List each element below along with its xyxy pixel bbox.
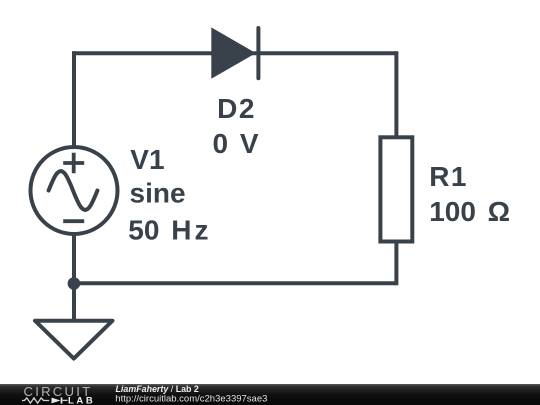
- D2 anode triangle: [211, 27, 256, 78]
- svg-text:LAB: LAB: [68, 395, 95, 405]
- wire left vertical: [72, 51, 76, 148]
- V1 plus sign: [63, 153, 84, 173]
- V1 sine symbol: [49, 171, 98, 210]
- wire top horizontal: [72, 51, 396, 55]
- voltage source V1: [31, 147, 118, 234]
- svg-text:sine: sine: [130, 178, 186, 209]
- ground: [35, 321, 113, 359]
- wire bottom horizontal: [74, 281, 396, 285]
- wire right vertical: [394, 51, 398, 139]
- junction node: [68, 277, 81, 290]
- svg-text:D2: D2: [217, 93, 256, 124]
- logo diode symbol: [52, 398, 61, 404]
- svg-text:http://circuitlab.com/c2h3e339: http://circuitlab.com/c2h3e3397sae3: [115, 394, 267, 405]
- svg-text:LiamFaherty / Lab 2: LiamFaherty / Lab 2: [116, 384, 199, 394]
- diode D2: [211, 27, 258, 78]
- svg-text:R1: R1: [429, 161, 468, 192]
- D2 cathode bar: [256, 28, 260, 78]
- resistor R1: [380, 137, 412, 241]
- V1 minus sign: [63, 219, 84, 223]
- wire resistor bottom: [394, 240, 398, 285]
- svg-text:50 Hz: 50 Hz: [128, 215, 211, 246]
- svg-text:V1: V1: [130, 144, 164, 175]
- svg-text:0 V: 0 V: [213, 128, 259, 159]
- footer bar: [0, 384, 540, 405]
- logo zigzag resistor: [22, 398, 49, 403]
- svg-text:100 Ω: 100 Ω: [429, 196, 510, 227]
- wire source to ground: [72, 233, 76, 321]
